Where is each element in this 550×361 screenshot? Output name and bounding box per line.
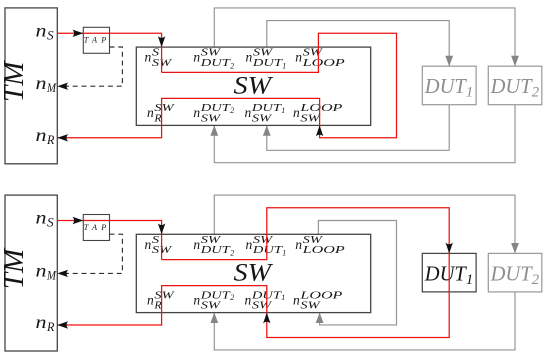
svg-text:R: R <box>153 113 162 125</box>
svg-text:n: n <box>36 20 47 40</box>
wire: red internal return route to n^SW_R (bottom) <box>162 286 267 313</box>
wire: red receive line SW to TM n_R (top) <box>57 125 161 137</box>
svg-text:2: 2 <box>230 106 234 115</box>
arrowhead into SW bottom at n^DUT1_SW (bottom) <box>263 313 270 324</box>
svg-text:2: 2 <box>532 85 540 101</box>
svg-text:2: 2 <box>230 249 234 258</box>
svg-text:1: 1 <box>282 62 286 71</box>
svg-text:n: n <box>295 50 302 65</box>
arrowhead into SW bottom at n_DUT1_SW (top) <box>263 125 271 135</box>
wire: dashed monitor line TAP to n_M (bottom) <box>66 234 122 273</box>
sampling box TAP (bottom) <box>83 215 109 241</box>
svg-text:2: 2 <box>230 293 234 302</box>
svg-text:n: n <box>193 237 200 252</box>
wire: red source feed n_S through TAP into SW (top) <box>57 33 161 72</box>
svg-text:SW: SW <box>234 258 275 287</box>
svg-text:1: 1 <box>281 293 285 302</box>
svg-text:S: S <box>47 216 54 230</box>
wire: SW to DUT1 feed (top) <box>267 21 449 67</box>
svg-text:n: n <box>145 50 152 65</box>
wire: DUT2 return to SW (top) <box>214 105 515 163</box>
wire: red internal route to LOOP port (top) <box>162 47 319 72</box>
svg-text:n: n <box>145 237 152 252</box>
svg-text:SW: SW <box>201 300 221 312</box>
svg-text:DUT: DUT <box>424 74 468 98</box>
device box DUT2 (bottom) <box>488 253 542 292</box>
svg-text:TM: TM <box>0 60 30 102</box>
svg-text:1: 1 <box>281 106 285 115</box>
svg-text:n: n <box>245 292 252 307</box>
svg-text:n: n <box>193 292 200 307</box>
wire: red internal return route to n^SW_R (top) <box>162 98 320 125</box>
svg-text:n: n <box>36 260 47 280</box>
svg-text:TAP: TAP <box>84 223 107 232</box>
svg-text:2: 2 <box>532 272 540 288</box>
wire: red internal route to DUT1 port (bottom) <box>162 234 267 259</box>
svg-text:LOOP: LOOP <box>301 57 345 69</box>
svg-text:n: n <box>36 73 47 93</box>
instrument box TM (top) <box>5 8 57 164</box>
wire: red through DUT1 and return to SW (bottom) <box>267 253 449 337</box>
svg-text:S: S <box>47 28 54 42</box>
svg-text:M: M <box>46 81 56 95</box>
svg-text:M: M <box>46 268 56 282</box>
svg-text:R: R <box>153 300 162 312</box>
svg-text:DUT: DUT <box>490 261 534 285</box>
wire: dashed monitor line TAP to n_M (top) <box>66 47 122 86</box>
wire: loop cable gray (inactive) (bottom) <box>318 221 396 325</box>
wire: red source feed n_S through TAP into SW (bottom) <box>57 221 161 260</box>
svg-text:TAP: TAP <box>84 36 107 45</box>
arrowhead into SW top at n^S_SW (bottom) <box>158 224 165 235</box>
svg-text:R: R <box>46 320 55 334</box>
svg-text:n: n <box>147 105 154 120</box>
switch matrix box SW (bottom) <box>136 234 370 312</box>
svg-text:SW: SW <box>300 300 320 312</box>
svg-text:n: n <box>147 292 154 307</box>
arrowhead into TAP (bottom) <box>73 217 84 224</box>
svg-text:n: n <box>36 312 47 332</box>
svg-text:n: n <box>193 105 200 120</box>
svg-text:1: 1 <box>282 249 286 258</box>
arrowhead into TM at n_R (bottom) <box>57 321 68 328</box>
svg-text:DUT: DUT <box>199 244 230 256</box>
arrowhead into SW bottom at n_DUT2_SW (bottom) <box>210 313 218 323</box>
svg-text:TM: TM <box>0 247 30 289</box>
svg-text:R: R <box>46 133 55 147</box>
switch matrix box SW (top) <box>136 47 370 125</box>
svg-text:n: n <box>245 105 252 120</box>
svg-text:SW: SW <box>252 300 272 312</box>
arrowhead into TM at n_M (bottom) <box>57 270 68 277</box>
svg-text:n: n <box>246 50 253 65</box>
svg-text:SW: SW <box>234 70 275 99</box>
svg-text:2: 2 <box>230 62 234 71</box>
arrowhead into SW top at n^S_SW (top) <box>158 36 165 47</box>
svg-text:DUT: DUT <box>199 57 230 69</box>
svg-text:SW: SW <box>201 113 221 125</box>
arrowhead into SW bottom at n^LOOP_SW (top) <box>316 125 323 136</box>
svg-text:1: 1 <box>466 272 474 288</box>
svg-text:DUT: DUT <box>252 57 283 69</box>
svg-text:SW: SW <box>300 113 320 125</box>
sampling box TAP (top) <box>83 27 109 53</box>
device box DUT1 (top) <box>422 66 476 105</box>
svg-text:n: n <box>293 292 300 307</box>
svg-text:n: n <box>293 105 300 120</box>
svg-text:LOOP: LOOP <box>301 244 345 256</box>
arrowhead into DUT2 top (top) <box>511 56 519 66</box>
instrument box TM (bottom) <box>5 195 57 351</box>
wire: red receive line SW to TM n_R (bottom) <box>57 313 161 325</box>
wire: DUT2 return to SW (bottom) <box>214 292 515 350</box>
wire: red cable SW to DUT1 (bottom) <box>267 208 449 254</box>
wire: SW to DUT2 feed (top) <box>214 8 515 66</box>
wire: DUT1 return to SW (top) <box>267 105 449 151</box>
wire: SW to DUT2 feed (bottom) <box>214 195 515 253</box>
svg-text:n: n <box>36 125 47 145</box>
svg-text:1: 1 <box>466 85 474 101</box>
arrowhead into TAP (top) <box>73 30 84 37</box>
svg-text:n: n <box>295 237 302 252</box>
wire: red loop cable around SW (top) <box>318 33 396 137</box>
arrowhead into TM at n_R (top) <box>57 134 68 141</box>
device box DUT2 (top) <box>488 66 542 105</box>
arrowhead into SW bottom at n_DUT2_SW (top) <box>210 125 218 135</box>
arrowhead into DUT1 top (top) <box>445 56 453 66</box>
svg-text:n: n <box>36 208 47 228</box>
svg-text:DUT: DUT <box>424 261 468 285</box>
svg-text:DUT: DUT <box>490 74 534 98</box>
arrowhead into TM at n_M (top) <box>57 83 68 90</box>
arrowhead into SW bottom at n_LOOP_SW (bottom) <box>316 313 324 323</box>
arrowhead into DUT1 top (bottom) <box>446 243 453 254</box>
device box DUT1 (bottom) <box>422 253 476 292</box>
arrowhead into DUT2 top (bottom) <box>511 243 519 253</box>
svg-text:n: n <box>246 237 253 252</box>
svg-text:n: n <box>193 50 200 65</box>
svg-text:SW: SW <box>252 113 272 125</box>
